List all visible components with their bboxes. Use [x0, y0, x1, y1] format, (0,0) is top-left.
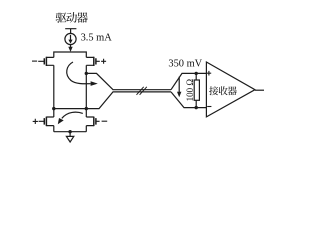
ground: [66, 132, 73, 142]
transistor Q2 (top-right): [86, 57, 100, 65]
svg-text:3.5 mA: 3.5 mA: [81, 33, 113, 44]
line break marks: [137, 87, 147, 95]
wire current source to top rail with arrowhead: [70, 45, 72, 48]
current source I1 arrow: [70, 35, 72, 40]
node left: [52, 107, 55, 110]
resistor RT 100 ohm: [195, 73, 197, 107]
voltage arrow down: [178, 77, 180, 93]
label − (Q1 gate): [32, 60, 37, 62]
wire conductor A line to receiver: [171, 73, 206, 89]
label + (Q2 gate): [101, 59, 106, 64]
label + (receiver input): [207, 71, 212, 76]
svg-text:100 Ω: 100 Ω: [185, 79, 195, 102]
wire middle rail: [54, 108, 87, 110]
wire left column: [53, 65, 55, 108]
current path arrow bottom: [62, 112, 83, 118]
label − (receiver input): [207, 106, 211, 108]
svg-text:350 mV: 350 mV: [168, 58, 202, 69]
label driver text 驱动器: [56, 12, 88, 23]
transistor Q1 (top-left): [38, 57, 54, 65]
label − (Q4 gate): [102, 120, 108, 122]
wire right column: [85, 65, 87, 108]
node tap B: [85, 72, 88, 75]
wire conductor A (top) driver to line: [86, 73, 171, 89]
wire top rail: [54, 52, 87, 57]
current path arrow top: [67, 62, 91, 84]
wire conductor B (bottom) driver to line: [86, 92, 171, 109]
transistor Q3 (bottom-left): [39, 109, 54, 132]
supply T-bar: [65, 29, 76, 34]
node ground: [68, 130, 71, 133]
wire ground rail: [54, 131, 87, 133]
node resistor top: [195, 72, 198, 75]
op-amp receiver triangle: [206, 62, 255, 117]
current source I1 circle: [65, 33, 76, 44]
wire output: [255, 89, 264, 91]
label + (Q3 gate): [33, 119, 38, 124]
transistor Q4 (bottom-right): [86, 109, 99, 132]
node right: [85, 107, 88, 110]
label receiver text 接收器: [209, 86, 237, 95]
node resistor bottom: [195, 106, 198, 109]
wire conductor B line to receiver: [171, 92, 206, 108]
